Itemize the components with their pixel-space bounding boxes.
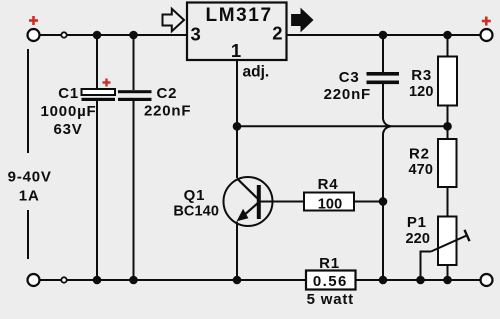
polarity plus output: [482, 17, 491, 26]
transistor Q1 emitter stroke: [239, 203, 259, 221]
node R4 right: [379, 197, 388, 206]
wire R3 top lead: [447, 35, 449, 57]
svg-text:220: 220: [406, 231, 431, 247]
capacitor C1 polarity plus: [103, 79, 111, 87]
svg-text:1A: 1A: [19, 188, 40, 205]
node C2 bottom: [129, 276, 138, 285]
svg-text:1: 1: [231, 40, 241, 61]
node C3 line bottom: [379, 276, 388, 285]
svg-text:5 watt: 5 watt: [307, 291, 354, 308]
svg-text:Q1: Q1: [184, 187, 206, 204]
op-amp style block: regulator LM317 U1 box: [187, 3, 287, 61]
terminal input plus: [28, 29, 40, 41]
transistor Q1 circle: [224, 177, 273, 226]
output flow arrow (filled): [292, 9, 313, 31]
svg-text:220nF: 220nF: [324, 86, 371, 103]
node adj rail left: [233, 122, 242, 131]
wire input bracket lower segment: [27, 210, 29, 259]
capacitor C3 top plate: [367, 72, 400, 76]
transistor Q1 collector stroke: [237, 179, 259, 200]
terminal output plus: [481, 29, 493, 41]
input flow arrow (open): [163, 9, 185, 31]
capacitor C2 top plate: [118, 90, 152, 93]
svg-text:470: 470: [409, 162, 434, 178]
wire R4 node down to bottom rail: [382, 202, 384, 281]
wire P1 wiper down lead: [421, 252, 432, 281]
wire C3 bottom lead to crossover: [382, 84, 384, 119]
node C1 top: [93, 31, 102, 40]
resistor R3 body: [438, 57, 457, 106]
svg-text:220nF: 220nF: [144, 103, 191, 120]
svg-text:63V: 63V: [53, 121, 82, 138]
node small input top: [61, 32, 66, 37]
svg-text:C1: C1: [58, 85, 79, 102]
node R3 top: [443, 31, 452, 40]
capacitor C2 bottom plate: [118, 98, 152, 101]
svg-text:P1: P1: [407, 214, 427, 231]
capacitor C1 bottom plate: [82, 98, 116, 101]
node C2 top: [129, 31, 138, 40]
svg-text:1000µF: 1000µF: [41, 103, 97, 120]
wire C1 bottom lead: [96, 101, 98, 281]
resistor R1 body: [306, 271, 356, 290]
potentiometer P1 wiper tick: [465, 230, 470, 241]
svg-text:R3: R3: [411, 67, 432, 84]
wire top rail: LM317 pin 2 to output terminal: [287, 34, 481, 36]
svg-text:0.56: 0.56: [313, 273, 348, 290]
wire adj node down to Q1 collector: [236, 126, 238, 178]
resistor R2 body: [438, 139, 457, 187]
wire C2 top lead: [133, 35, 135, 90]
svg-text:2: 2: [272, 23, 282, 44]
svg-text:R2: R2: [409, 146, 430, 163]
wire P1 bottom lead: [447, 265, 449, 280]
svg-text:3: 3: [191, 24, 201, 45]
terminal input minus: [28, 274, 40, 286]
wire input bracket upper segment: [27, 49, 29, 153]
svg-text:C2: C2: [157, 85, 178, 102]
wire C1 top lead: [96, 35, 98, 89]
capacitor C1 top plate (electrolytic, outlined): [82, 89, 116, 95]
node P1 wiper bottom: [416, 276, 425, 285]
resistor R4 body: [304, 193, 354, 211]
svg-text:LM317: LM317: [206, 5, 273, 26]
wire crossover hop over adj rail: [383, 119, 391, 134]
svg-text:adj.: adj.: [243, 64, 270, 81]
wire C3 line continuing to R4 node: [382, 134, 384, 202]
terminal output minus: [481, 274, 493, 286]
svg-text:C3: C3: [339, 69, 360, 86]
wire R4 right lead: [354, 201, 383, 203]
wire bottom rail: input terminal to small node: [40, 279, 62, 281]
svg-text:9-40V: 9-40V: [8, 169, 52, 186]
svg-text:R4: R4: [318, 176, 339, 193]
wire top rail: small node to LM317 pin 3: [67, 34, 188, 36]
wire LM317 pin 1 (adj) down to node: [236, 60, 238, 126]
node P1 bottom: [443, 276, 452, 285]
node Q1 emitter bottom: [233, 276, 242, 285]
wire Q1 emitter to bottom rail: [236, 222, 238, 281]
wire R3 bottom lead: [447, 106, 449, 127]
wire R2 bottom to P1 top: [447, 187, 449, 217]
node adj rail right: [443, 122, 452, 131]
transistor Q1 base bar: [257, 185, 261, 219]
wire C3 top lead: [382, 35, 384, 72]
polarity plus input: [29, 16, 38, 25]
wire bottom rail: small node to R1 left: [67, 279, 307, 281]
svg-text:BC140: BC140: [173, 204, 219, 220]
potentiometer P1 wiper arm: [431, 236, 467, 252]
node C3 top: [379, 31, 388, 40]
node C1 bottom: [93, 276, 102, 285]
wire C2 bottom lead: [133, 101, 135, 281]
capacitor C3 bottom plate: [367, 81, 400, 85]
wire top rail: input terminal to small node: [40, 34, 62, 36]
svg-text:120: 120: [409, 84, 434, 100]
wire bottom rail: R1 right to output terminal: [356, 279, 481, 281]
wire adj rail horizontal to R2/R3 node: [237, 125, 448, 127]
svg-text:R1: R1: [319, 255, 340, 272]
svg-text:100: 100: [318, 196, 343, 212]
wire R2 top lead: [447, 126, 449, 139]
node small input bottom: [61, 277, 66, 282]
transistor Q1 emitter arrowhead: [237, 209, 249, 221]
wire Q1 base to R4: [259, 201, 304, 203]
potentiometer P1 body: [438, 217, 457, 266]
